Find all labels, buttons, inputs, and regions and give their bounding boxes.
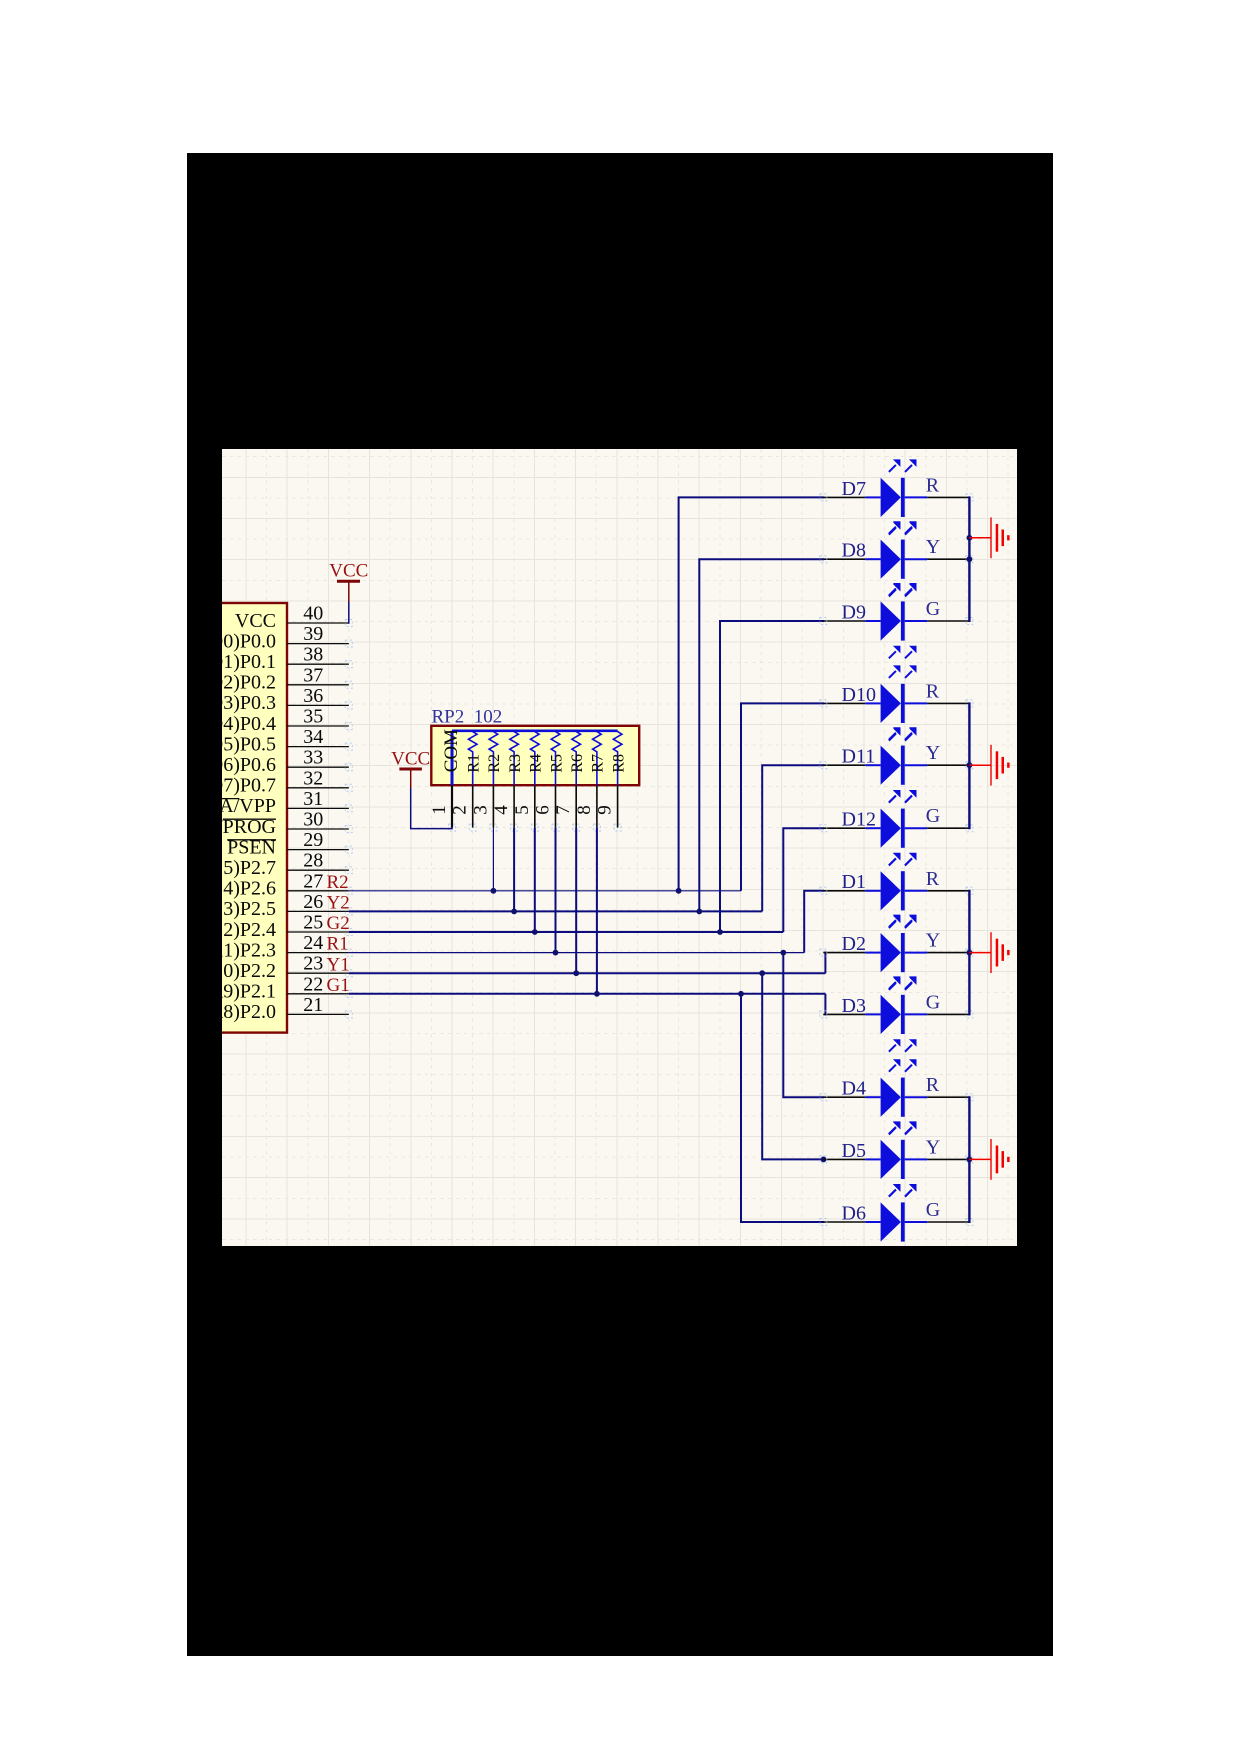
svg-text:G: G [926, 1199, 940, 1221]
svg-text:(A15)P2.7: (A15)P2.7 [222, 857, 276, 879]
svg-text:R7: R7 [590, 754, 607, 773]
svg-text:40: 40 [303, 603, 323, 625]
svg-text:R2: R2 [327, 872, 349, 893]
junction G1 descender [738, 991, 744, 997]
svg-text:D1: D1 [842, 871, 866, 893]
svg-text:(AD2)P0.2: (AD2)P0.2 [222, 672, 276, 694]
svg-text:R4: R4 [528, 754, 545, 773]
svg-text:D3: D3 [842, 995, 866, 1017]
wire VCC symbol to RP2 pin 1 [411, 788, 452, 829]
svg-text:D6: D6 [842, 1202, 866, 1224]
svg-text:COM: COM [441, 729, 462, 772]
svg-text:31: 31 [303, 788, 323, 810]
RP2 pin 6 [533, 785, 560, 831]
svg-text:(A9)P2.1: (A9)P2.1 [222, 981, 276, 1003]
RP2 resistor R3 [507, 731, 524, 785]
U1 pin 29 [287, 829, 352, 853]
svg-text:VCC: VCC [391, 749, 430, 770]
wire D9 anode riser [720, 621, 824, 932]
svg-text:39: 39 [303, 623, 323, 645]
LED D11 [820, 727, 973, 802]
RP2 pin 4 [491, 785, 517, 831]
wire net G1 descender to D6 anode [741, 994, 824, 1222]
svg-text:26: 26 [303, 891, 323, 913]
U1 pin 21 [287, 994, 352, 1018]
svg-text:30: 30 [303, 809, 323, 831]
IC U1 8051 microcontroller body [140, 603, 287, 1033]
svg-text:(A14)P2.6: (A14)P2.6 [222, 878, 276, 900]
wire cathode bus group D4-D6 [968, 1096, 970, 1223]
junction D7 riser / R2 [676, 888, 682, 894]
svg-text:G: G [926, 598, 940, 620]
RP2 resistor R1 [466, 731, 483, 785]
svg-text:3: 3 [470, 805, 491, 815]
U1 pin 31 [287, 788, 352, 812]
svg-text:27: 27 [303, 870, 323, 892]
svg-text:D5: D5 [842, 1140, 866, 1162]
svg-text:D2: D2 [842, 933, 866, 955]
svg-text:G: G [926, 991, 940, 1013]
junction at D5 anode [821, 1157, 827, 1163]
svg-text:34: 34 [303, 726, 323, 748]
ground symbol for group D10-D12 [969, 745, 1009, 786]
svg-text:21: 21 [303, 994, 323, 1016]
junction cathode bus group D4-D6 at y=1159 [967, 1157, 973, 1163]
svg-text:VCC: VCC [329, 561, 368, 582]
wire net R2 horizontal (U1 pin27) [349, 890, 741, 892]
svg-text:6: 6 [533, 805, 554, 815]
LED D9 [820, 583, 973, 658]
svg-text:D4: D4 [842, 1078, 866, 1100]
wire RP2 pin8 to net G1 [596, 828, 598, 994]
LED D5 [820, 1121, 973, 1196]
ground symbol for group D4-D6 [969, 1139, 1009, 1180]
junction cathode bus group D10-D12 at y=765 [967, 762, 973, 768]
svg-text:D12: D12 [842, 809, 876, 831]
svg-text:(A11)P2.3: (A11)P2.3 [222, 939, 276, 961]
svg-text:Y1: Y1 [327, 954, 350, 975]
svg-text:Y: Y [926, 742, 940, 764]
wire RP2 pin3 to net R2 [492, 828, 494, 891]
RP2 resistor R4 [528, 731, 545, 785]
wire net G1 riser to D3 anode [825, 994, 826, 1015]
U1 pin 23 [287, 953, 352, 977]
LED D3 [820, 976, 973, 1051]
wire net R1 descender to D4 anode [783, 953, 824, 1098]
junction RP2 pin5 / G2 [532, 929, 538, 935]
resistor pack RP2 body (102) [431, 726, 639, 785]
wire RP2 pin4 to net Y2 [513, 828, 515, 912]
svg-text:R1: R1 [327, 934, 349, 955]
wire RP2 pin7 to net Y1 [575, 828, 577, 974]
svg-text:29: 29 [303, 829, 323, 851]
wire net R1 horizontal (U1 pin24) [349, 952, 804, 954]
junction RP2 pin6 / R1 [553, 950, 559, 956]
svg-text:8: 8 [574, 805, 595, 815]
U1 pin 39 [287, 623, 352, 647]
svg-text:(AD1)P0.1: (AD1)P0.1 [222, 651, 276, 673]
RP2 pin 8 [574, 785, 601, 831]
svg-text:G1: G1 [327, 975, 350, 996]
svg-text:D11: D11 [842, 746, 876, 768]
svg-text:Y: Y [926, 1136, 940, 1158]
svg-text:R6: R6 [569, 754, 586, 773]
svg-text:R: R [926, 1074, 940, 1096]
svg-text:R: R [926, 680, 940, 702]
svg-text:G2: G2 [327, 913, 350, 934]
wire cathode bus group D10-D12 [968, 702, 970, 829]
svg-text:R3: R3 [507, 754, 524, 773]
svg-text:D10: D10 [842, 684, 876, 706]
svg-text:R5: R5 [548, 754, 565, 773]
svg-text:Y: Y [926, 536, 940, 558]
RP2 pin 9 [595, 785, 622, 831]
U1 pin 26 [287, 891, 352, 915]
LED D12 [820, 790, 973, 865]
U1 pin 37 [287, 664, 352, 688]
svg-text:25: 25 [303, 912, 323, 934]
wire RP2 pin5 to net G2 [534, 828, 536, 932]
LED D10 [820, 665, 973, 740]
ground symbol for group D1-D3 [969, 932, 1009, 973]
RP2 resistor R7 [590, 731, 607, 785]
svg-text:R8: R8 [610, 754, 627, 773]
U1 pin 25 [287, 912, 352, 936]
U1 pin 35 [287, 706, 352, 730]
junction cathode bus group D7-D9 at y=559 [967, 556, 973, 562]
RP2 pin 1 [429, 785, 456, 831]
svg-text:(A10)P2.2: (A10)P2.2 [222, 960, 276, 982]
wire net G2 horizontal (U1 pin25) [349, 931, 784, 933]
junction RP2 pin8 / G1 [594, 991, 600, 997]
junction RP2 pin3 / R2 [491, 888, 497, 894]
svg-text:33: 33 [303, 747, 323, 769]
svg-text:D8: D8 [842, 540, 866, 562]
junction RP2 pin7 / Y1 [573, 970, 579, 976]
svg-text:(AD6)P0.6: (AD6)P0.6 [222, 754, 276, 776]
svg-text:36: 36 [303, 685, 323, 707]
U1 pin 30 [287, 809, 352, 833]
LED D7 [820, 459, 973, 534]
RP2 pin 3 [470, 785, 497, 831]
svg-text:1: 1 [429, 805, 450, 815]
U1 pin 22 [287, 973, 352, 997]
U1 pin 32 [287, 767, 352, 791]
U1 pin 38 [287, 644, 352, 668]
U1 pin 36 [287, 685, 352, 709]
svg-text:35: 35 [303, 706, 323, 728]
wire D8 anode riser [699, 559, 824, 911]
RP2 resistor R5 [548, 731, 565, 785]
junction R1 descender [780, 950, 786, 956]
svg-text:28: 28 [303, 850, 323, 872]
junction RP2 pin4 / Y2 [511, 909, 517, 915]
wire cathode bus group D1-D3 [968, 890, 970, 1016]
svg-text:VCC: VCC [235, 610, 276, 632]
wire cathode bus group D7-D9 [968, 496, 970, 622]
svg-text:(AD3)P0.3: (AD3)P0.3 [222, 692, 276, 714]
LED D4 [820, 1059, 973, 1134]
wire net Y1 descender to D5 anode [762, 973, 824, 1159]
svg-text:2: 2 [450, 805, 471, 815]
svg-text:7: 7 [553, 805, 574, 815]
svg-text:(A8)P2.0: (A8)P2.0 [222, 1001, 276, 1023]
RP2 resistor R6 [569, 731, 586, 785]
wire net Y1 horizontal (U1 pin23) [349, 972, 826, 974]
RP2 pin 7 [553, 785, 580, 831]
RP2 resistor R2 [486, 731, 503, 785]
LED D6 [820, 1184, 973, 1259]
wire D7 anode riser [679, 497, 825, 890]
wire VCC symbol to U1 pin 40 [348, 602, 350, 624]
LED D8 [820, 521, 973, 596]
U1 pin 24 [287, 932, 352, 956]
U1 pin 33 [287, 747, 352, 771]
svg-text:5: 5 [512, 805, 533, 815]
wire net G1 horizontal (U1 pin22) [349, 993, 826, 995]
svg-text:(A12)P2.4: (A12)P2.4 [222, 919, 276, 941]
svg-text:Y2: Y2 [327, 893, 350, 914]
svg-text:32: 32 [303, 767, 323, 789]
svg-text:(AD5)P0.5: (AD5)P0.5 [222, 733, 276, 755]
power symbol VCC (to U1 pin 40) [329, 561, 368, 602]
svg-text:D7: D7 [842, 478, 866, 500]
svg-text:Y: Y [926, 930, 940, 952]
svg-text:RP2 102: RP2 102 [432, 707, 503, 728]
svg-text:24: 24 [303, 932, 323, 954]
svg-text:22: 22 [303, 973, 323, 995]
svg-text:G: G [926, 805, 940, 827]
U1 pin 40 [287, 603, 352, 627]
wire RP2 pin6 to net R1 [555, 828, 557, 953]
svg-text:R: R [926, 868, 940, 890]
LED D2 [820, 915, 973, 990]
svg-text:9: 9 [595, 805, 616, 815]
RP2 pin 5 [512, 785, 539, 831]
wire net R1 riser to D1 anode [804, 891, 824, 953]
svg-text:23: 23 [303, 953, 323, 975]
junction D9 riser / G2 [717, 929, 723, 935]
junction cathode bus group D1-D3 at y=953 [967, 950, 973, 956]
LED D1 [820, 853, 973, 928]
U1 pin 34 [287, 726, 352, 750]
junction Y1 descender [759, 970, 765, 976]
U1 pin 27 [287, 870, 352, 894]
svg-text:R1: R1 [466, 754, 483, 773]
svg-text:38: 38 [303, 644, 323, 666]
svg-text:(A13)P2.5: (A13)P2.5 [222, 898, 276, 920]
U1 pin 28 [287, 850, 352, 874]
wire net Y2 riser to D11 anode [762, 765, 824, 911]
ground symbol for group D7-D9 [969, 517, 1009, 558]
svg-text:(AD7)P0.7: (AD7)P0.7 [222, 775, 276, 797]
wire net G2 riser to D12 anode [783, 828, 824, 932]
svg-text:D9: D9 [842, 601, 866, 623]
svg-text:4: 4 [491, 805, 512, 815]
wire net Y2 horizontal (U1 pin26) [349, 910, 762, 912]
svg-text:R: R [926, 474, 940, 496]
wire net R2 riser to D10 anode [741, 703, 824, 890]
svg-text:37: 37 [303, 664, 323, 686]
svg-text:R2: R2 [486, 754, 503, 773]
RP2 resistor R8 [610, 731, 627, 785]
junction cathode bus group D7-D9 at y=538 [967, 535, 973, 541]
svg-text:(AD4)P0.4: (AD4)P0.4 [222, 713, 276, 735]
junction D8 riser / Y2 [696, 909, 702, 915]
RP2 pin 2 [450, 785, 477, 831]
svg-text:(AD0)P0.0: (AD0)P0.0 [222, 630, 276, 652]
power symbol VCC (to RP2 pin 1 COM) [391, 749, 430, 789]
wire net Y1 riser to D2 anode [825, 953, 826, 974]
